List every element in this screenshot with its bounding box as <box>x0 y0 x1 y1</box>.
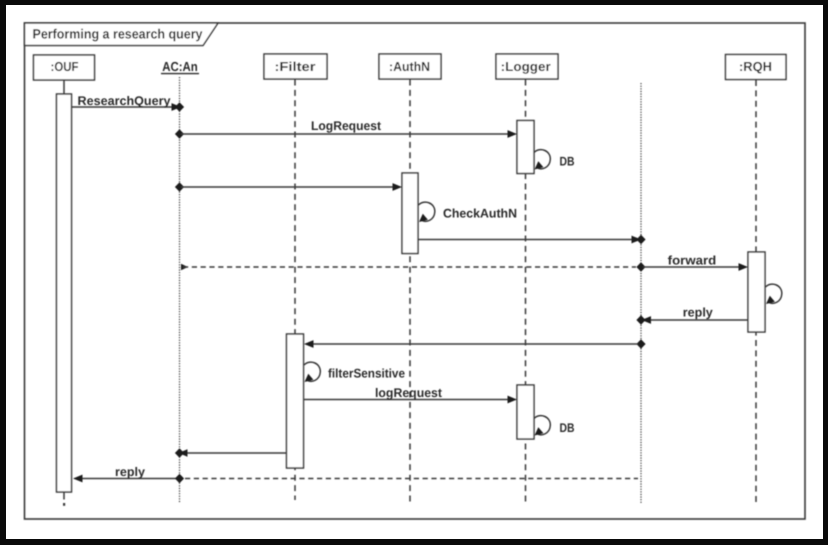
message LogRequest <box>175 119 517 139</box>
svg-text:LogRequest: LogRequest <box>311 119 382 133</box>
self message CheckAuthN on AuthN <box>419 202 518 222</box>
lifeline OUF (solid stubs) <box>63 80 65 506</box>
svg-text::Logger: :Logger <box>501 59 551 74</box>
self message filterSensitive on Filter <box>304 362 405 382</box>
activation AuthN <box>402 173 418 254</box>
message ResearchQuery <box>72 94 184 112</box>
title pentagon tab <box>25 23 219 46</box>
message Filter to AC:An <box>175 448 287 458</box>
svg-text::RQH: :RQH <box>739 59 772 74</box>
self message DB on Logger 1 <box>534 150 575 170</box>
lifeline Logger (dashed) <box>525 80 527 504</box>
message forward <box>636 254 748 272</box>
lifeline AuthN (dashed) <box>409 80 411 504</box>
svg-text:reply: reply <box>683 305 713 319</box>
svg-text::Filter: :Filter <box>275 59 316 74</box>
head box :OUF <box>34 55 95 80</box>
message gate to Filter <box>304 339 646 349</box>
lifeline Filter (dashed) <box>294 80 296 501</box>
activation RQH <box>748 252 765 332</box>
activation Logger 2 <box>517 385 534 439</box>
svg-text:DB: DB <box>560 155 575 169</box>
lifeline gate (dotted) <box>640 83 642 503</box>
self loop on RQH <box>766 284 782 304</box>
svg-text:DB: DB <box>560 421 575 435</box>
message reply (to OUF) <box>73 465 184 483</box>
activation Filter <box>287 334 304 468</box>
head box :AuthN <box>379 54 441 79</box>
activation OUF <box>57 94 72 492</box>
dashed return AC:An to gate <box>185 478 638 480</box>
svg-text:reply: reply <box>115 465 145 479</box>
lifeline AC:An (dotted) <box>179 77 181 503</box>
message AuthN to gate <box>418 235 646 245</box>
svg-text:forward: forward <box>668 254 717 268</box>
lifeline RQH (dashed) <box>755 80 757 503</box>
svg-text:logRequest: logRequest <box>375 386 443 400</box>
head box :Logger <box>496 54 558 79</box>
dashed return to AC:An <box>181 264 636 270</box>
svg-text:filterSensitive: filterSensitive <box>328 367 405 381</box>
activation Logger 1 <box>517 121 534 174</box>
message to AuthN <box>175 182 402 192</box>
svg-text:CheckAuthN: CheckAuthN <box>443 207 517 221</box>
message logRequest <box>303 386 517 403</box>
self message DB on Logger 2 <box>534 416 575 436</box>
head box :RQH <box>726 55 787 80</box>
svg-text:ResearchQuery: ResearchQuery <box>78 94 171 108</box>
message reply (RQH to gate) <box>636 305 748 324</box>
svg-text:AC:An: AC:An <box>162 59 198 74</box>
head box :Filter <box>264 54 327 79</box>
svg-text::AuthN: :AuthN <box>389 59 430 74</box>
svg-text::OUF: :OUF <box>51 59 79 74</box>
svg-text:Performing a research query: Performing a research query <box>33 27 203 42</box>
